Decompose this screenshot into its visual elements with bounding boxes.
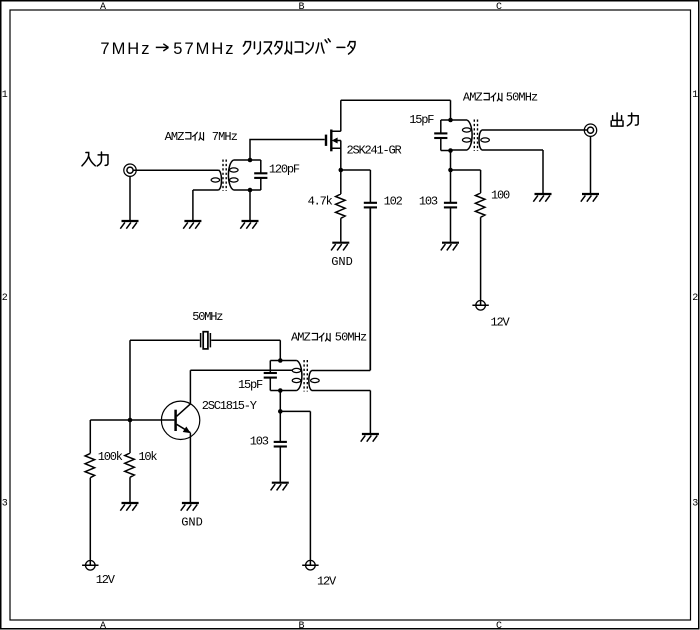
- svg-text:AMZ: AMZ: [291, 331, 311, 345]
- svg-text:57MHz: 57MHz: [173, 40, 235, 58]
- svg-text:2SC1815-Y: 2SC1815-Y: [202, 399, 257, 413]
- svg-text:3: 3: [2, 498, 8, 509]
- svg-text:B: B: [299, 2, 305, 13]
- svg-text:2SK241-GR: 2SK241-GR: [347, 144, 402, 158]
- svg-text:AMZ: AMZ: [165, 130, 185, 144]
- svg-text:1: 1: [692, 90, 698, 101]
- svg-text:103: 103: [250, 434, 269, 448]
- svg-text:50MHz: 50MHz: [192, 310, 223, 324]
- svg-text:100: 100: [491, 189, 510, 203]
- svg-text:1: 1: [2, 90, 8, 101]
- svg-text:C: C: [496, 2, 502, 13]
- svg-text:100k: 100k: [98, 450, 123, 464]
- svg-text:12V: 12V: [491, 316, 511, 330]
- svg-text:50MHz: 50MHz: [335, 331, 367, 345]
- svg-text:2: 2: [692, 293, 698, 304]
- svg-text:10k: 10k: [138, 450, 157, 464]
- svg-text:7MHz: 7MHz: [100, 40, 151, 58]
- svg-text:50MHz: 50MHz: [506, 91, 538, 105]
- svg-text:12V: 12V: [317, 574, 337, 588]
- svg-text:AMZ: AMZ: [463, 91, 483, 105]
- svg-text:103: 103: [419, 194, 438, 208]
- svg-text:A: A: [100, 621, 106, 630]
- svg-text:2: 2: [2, 293, 8, 304]
- svg-text:3: 3: [692, 498, 698, 509]
- svg-text:4.7k: 4.7k: [308, 194, 333, 208]
- svg-text:120pF: 120pF: [269, 162, 300, 176]
- svg-text:12V: 12V: [96, 573, 116, 587]
- svg-text:GND: GND: [181, 516, 203, 530]
- svg-text:102: 102: [384, 194, 403, 208]
- svg-text:15pF: 15pF: [238, 378, 263, 392]
- svg-text:GND: GND: [331, 255, 353, 269]
- svg-text:7MHz: 7MHz: [212, 130, 238, 144]
- svg-text:B: B: [299, 621, 305, 630]
- svg-text:15pF: 15pF: [409, 113, 434, 127]
- svg-text:C: C: [496, 621, 502, 630]
- svg-text:A: A: [100, 2, 106, 13]
